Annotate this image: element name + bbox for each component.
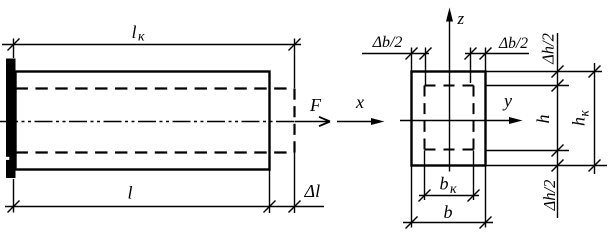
svg-text:h: h — [569, 117, 589, 126]
svg-text:Δb/2: Δb/2 — [372, 34, 403, 51]
svg-text:Δb/2: Δb/2 — [498, 35, 528, 52]
svg-text:Δh/2: Δh/2 — [540, 180, 559, 212]
svg-text:l: l — [128, 183, 133, 203]
svg-text:b: b — [440, 174, 449, 194]
svg-text:F: F — [309, 95, 322, 115]
svg-text:b: b — [444, 202, 453, 222]
svg-text:h: h — [533, 115, 553, 124]
svg-text:Δh/2: Δh/2 — [539, 33, 558, 65]
svg-text:x: x — [355, 92, 364, 112]
svg-text:l: l — [132, 22, 137, 42]
svg-text:z: z — [457, 9, 465, 28]
svg-text:к: к — [577, 110, 592, 117]
svg-text:y: y — [502, 91, 512, 111]
svg-text:к: к — [450, 182, 457, 197]
svg-text:Δl: Δl — [304, 181, 321, 201]
svg-text:к: к — [138, 30, 145, 45]
